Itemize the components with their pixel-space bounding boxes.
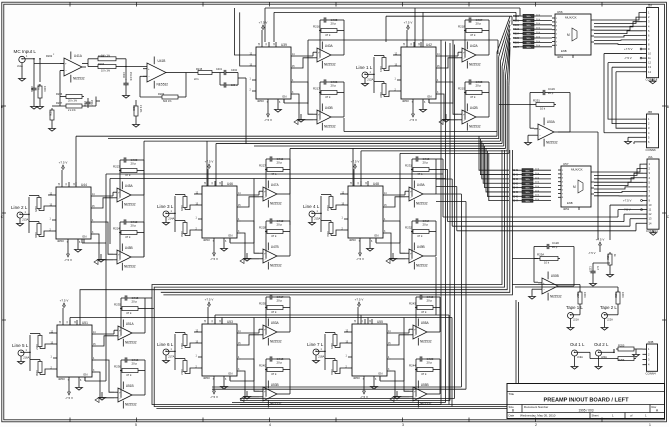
input jack J13A (Line 2 L): [11, 205, 29, 226]
node arrow at U49B: [386, 259, 390, 264]
svg-text:J15A: J15A: [314, 217, 321, 221]
svg-text:2 k 1%: 2 k 1%: [68, 109, 76, 112]
svg-text:Line 6 L: Line 6 L: [157, 342, 174, 347]
op-amp U53A: [259, 319, 282, 346]
svg-text:M: M: [573, 185, 576, 189]
svg-text:U41B: U41B: [157, 59, 165, 63]
svg-text:47 k: 47 k: [421, 310, 427, 314]
ground at U55: [371, 381, 378, 389]
svg-text:-7.5 V: -7.5 V: [64, 258, 72, 262]
node arrow at U51B: [95, 398, 99, 403]
resistor R222: [379, 82, 386, 99]
op-amp U55A: [409, 319, 432, 346]
wire feedback loop U47A: [266, 170, 290, 197]
svg-text:R209: R209: [158, 92, 165, 96]
svg-text:R241: R241: [512, 174, 519, 177]
svg-text:EN: EN: [84, 373, 88, 377]
svg-text:NE5532: NE5532: [416, 263, 428, 267]
power +7.5V at U48: [351, 160, 360, 182]
wire feedback loop U49B: [412, 232, 436, 259]
wire feedback loop U42B: [465, 93, 489, 120]
resistor R241: [180, 333, 187, 350]
svg-text:20 p: 20 p: [423, 223, 429, 227]
svg-text:4053: 4053: [353, 376, 360, 380]
wire EN bus row3: [70, 315, 452, 407]
svg-text:U41A: U41A: [74, 54, 83, 58]
svg-text:U45A: U45A: [125, 184, 134, 188]
power +7.5V at U46: [205, 160, 214, 182]
svg-text:NE5532: NE5532: [324, 62, 336, 66]
ground at U40B: [298, 114, 305, 122]
wire R237/R238 to U51: [30, 333, 53, 375]
svg-text:NE5532: NE5532: [550, 294, 562, 298]
svg-text:EN: EN: [379, 372, 383, 376]
svg-text:R224: R224: [113, 227, 120, 231]
wire conn14-1 pin10: [604, 54, 643, 114]
svg-text:J16A: J16A: [23, 356, 30, 360]
svg-text:J19A: J19A: [577, 355, 583, 359]
svg-text:R244: R244: [409, 364, 416, 368]
svg-text:+7.5 V: +7.5 V: [355, 298, 364, 302]
input jack J12A (Line 1 L): [356, 65, 374, 86]
power +7.5V at U53: [205, 298, 214, 320]
svg-text:R258: R258: [614, 292, 617, 298]
svg-text:20 p: 20 p: [427, 361, 433, 365]
svg-text:U51: U51: [82, 321, 88, 325]
svg-text:20 p: 20 p: [132, 362, 138, 366]
capacitor C412 / resistor R228 feedback: [259, 218, 290, 238]
svg-text:U47A: U47A: [271, 183, 280, 187]
op-amp U49B: [405, 243, 428, 270]
op-amp U47A: [259, 181, 282, 208]
svg-text:20 p: 20 p: [476, 22, 482, 26]
svg-text:U45B: U45B: [125, 246, 133, 250]
svg-text:R239: R239: [259, 302, 266, 306]
resistor R242: [180, 359, 187, 376]
wire R245/R246 to U55: [325, 332, 348, 374]
svg-text:47 k: 47 k: [325, 33, 331, 37]
MC input jack J11A: [14, 49, 47, 109]
wire tape bus right: [512, 132, 618, 292]
svg-text:R243: R243: [512, 182, 519, 185]
svg-text:R222: R222: [379, 92, 382, 98]
op-amp U53B: [259, 381, 282, 408]
input jack J18A (Line 7 L): [307, 342, 325, 363]
svg-text:R236: R236: [114, 365, 121, 369]
svg-text:R219: R219: [458, 87, 465, 91]
svg-text:NE5532: NE5532: [469, 124, 481, 128]
resistor R237: [35, 334, 42, 351]
svg-text:R227: R227: [259, 164, 266, 168]
multiplexer U56 (4051 MUX/CK): [552, 10, 594, 59]
svg-text:+7.5 V: +7.5 V: [351, 160, 360, 164]
svg-text:R325: R325: [513, 37, 520, 40]
wire EN bus row2: [82, 153, 446, 381]
svg-text:20 p: 20 p: [427, 299, 433, 303]
svg-text:C121: C121: [589, 266, 592, 272]
connector J6A CONN14: [643, 155, 659, 235]
ground at U46: [221, 243, 228, 251]
svg-text:R240: R240: [259, 364, 266, 368]
wire mid bus: [76, 78, 509, 315]
svg-text:J20A: J20A: [601, 355, 607, 359]
op-amp U40A: [313, 42, 336, 69]
op-amp U40B: [313, 104, 336, 131]
wire jack J13A junction: [26, 197, 30, 233]
svg-text:10 k 1%: 10 k 1%: [101, 70, 111, 73]
svg-text:4053: 4053: [58, 377, 65, 381]
svg-text:U53A: U53A: [271, 321, 280, 325]
svg-text:J17A: J17A: [168, 355, 175, 359]
resistor R230: [180, 221, 187, 238]
svg-text:20 p: 20 p: [131, 162, 137, 166]
svg-text:20 p: 20 p: [331, 84, 337, 88]
svg-text:R207: R207: [56, 101, 63, 105]
wire fan to resistor array R320-R327: [497, 16, 510, 153]
svg-text:ENB: ENB: [561, 49, 567, 53]
svg-text:U48: U48: [373, 182, 379, 186]
svg-text:NE5532: NE5532: [546, 140, 558, 144]
svg-text:20 k 1%: 20 k 1%: [68, 100, 78, 103]
svg-text:R247: R247: [512, 200, 519, 203]
svg-text:Out 1 L: Out 1 L: [570, 342, 585, 347]
wire top bus row1: [235, 8, 521, 66]
capacitor C419 / resistor R243 feedback: [409, 294, 440, 314]
svg-text:U55: U55: [377, 320, 383, 324]
svg-text:NE5532: NE5532: [124, 202, 136, 206]
4053 analog switch U55: [346, 319, 392, 381]
svg-text:R217: R217: [313, 87, 320, 91]
svg-text:20 p: 20 p: [552, 245, 558, 249]
ground at U48: [367, 243, 374, 251]
wire vertical bundle center: [232, 40, 455, 405]
resistor R238: [35, 360, 42, 377]
svg-text:EN: EN: [229, 234, 233, 238]
svg-text:2: 2: [535, 423, 537, 427]
svg-text:U46: U46: [227, 182, 233, 186]
svg-text:EN: EN: [428, 95, 432, 99]
svg-text:R237: R237: [35, 344, 38, 350]
svg-text:R251: R251: [533, 99, 540, 103]
svg-text:U57: U57: [563, 162, 569, 166]
svg-text:R208: R208: [132, 105, 135, 111]
svg-text:MUX/CK: MUX/CK: [571, 168, 583, 172]
wire feedback loop U40B: [320, 93, 344, 120]
svg-text:4053: 4053: [57, 239, 64, 243]
svg-text:U53B: U53B: [271, 383, 279, 387]
power -7.5V at U55: [360, 381, 368, 399]
svg-text:U44: U44: [81, 183, 87, 187]
wire bottom bus: [156, 300, 518, 409]
svg-text:R243: R243: [409, 302, 416, 306]
node arrow at U40B: [294, 120, 298, 125]
svg-text:4051: 4051: [557, 55, 564, 59]
node arrow at U55B: [390, 397, 394, 402]
resistor array R240-R247: [512, 169, 551, 203]
op-amp U51A: [114, 320, 137, 347]
svg-text:C120: C120: [552, 241, 559, 245]
svg-text:R322: R322: [513, 24, 520, 27]
svg-text:-7.5 V: -7.5 V: [409, 118, 417, 122]
svg-text:NE5532: NE5532: [270, 201, 282, 205]
power +7.5V at U44: [59, 161, 68, 183]
svg-text:R25A: R25A: [537, 253, 544, 257]
svg-text:R205: R205: [49, 110, 52, 116]
svg-text:NE5532: NE5532: [270, 263, 282, 267]
capacitor C410 / resistor R224 feedback: [113, 219, 144, 239]
svg-text:U51B: U51B: [126, 384, 134, 388]
svg-text:U40B: U40B: [325, 106, 333, 110]
input jack J15A (Line 4 L): [303, 204, 321, 225]
svg-text:of: of: [630, 414, 633, 418]
svg-text:R231: R231: [405, 164, 412, 168]
ground at U42B: [443, 114, 450, 122]
4053 analog switch U48: [342, 181, 388, 243]
wire U46 outputs to op-amps: [241, 191, 259, 259]
svg-text:R326: R326: [513, 41, 520, 44]
wire jack J18A junction: [322, 334, 326, 370]
wire EN bus row1: [284, 40, 498, 104]
svg-text:1: 1: [649, 423, 651, 427]
wire feedback loop U47B: [266, 232, 290, 259]
svg-text:U56: U56: [557, 10, 563, 14]
svg-text:Wednesday, May 05, 2010: Wednesday, May 05, 2010: [520, 414, 556, 418]
svg-text:20 p: 20 p: [132, 300, 138, 304]
svg-text:47 k: 47 k: [470, 33, 476, 37]
power +7.5V at conn14-2: [623, 199, 643, 203]
svg-text:NE5532: NE5532: [73, 76, 85, 80]
svg-text:U40A: U40A: [325, 44, 334, 48]
svg-text:Line 5 L: Line 5 L: [12, 343, 29, 348]
svg-text:U49B: U49B: [417, 245, 425, 249]
svg-text:C119: C119: [548, 87, 555, 91]
svg-text:Out 2 L: Out 2 L: [594, 342, 609, 347]
capacitor C413 / resistor R231 feedback: [405, 156, 436, 176]
resistor R233: [326, 195, 333, 212]
power -7.5V at U39: [264, 104, 272, 122]
svg-text:C401: C401: [216, 68, 223, 71]
svg-text:+7.5 V: +7.5 V: [205, 160, 214, 164]
power -7.5V at U46: [210, 243, 218, 261]
svg-text:NE5532: NE5532: [157, 82, 169, 86]
svg-text:R245: R245: [512, 191, 519, 194]
svg-text:R253: R253: [606, 254, 609, 260]
svg-text:R230: R230: [180, 231, 183, 237]
svg-text:20 p: 20 p: [331, 22, 337, 26]
wire U44 outputs to op-amps: [95, 192, 113, 260]
svg-text:4053: 4053: [257, 99, 264, 103]
resistor R245: [330, 333, 337, 350]
svg-text:NE5532: NE5532: [124, 264, 136, 268]
svg-text:Sheet: Sheet: [592, 413, 599, 417]
wire feedback loop U55B: [416, 370, 440, 397]
op-amp U50A integrator: [499, 87, 570, 147]
resistor R229: [180, 195, 187, 212]
svg-text:M: M: [567, 33, 570, 37]
power +7.5V at U39: [259, 21, 268, 43]
power -7.5V at conn14-1: [624, 56, 643, 60]
svg-text:CONN4: CONN4: [646, 371, 657, 375]
svg-text:+7.5 V: +7.5 V: [259, 21, 268, 25]
svg-text:47 k: 47 k: [271, 234, 277, 238]
wire tape bus: [80, 150, 512, 407]
op-amp U45A: [113, 182, 136, 209]
svg-text:J18A: J18A: [318, 355, 325, 359]
ground at U47B: [244, 253, 251, 261]
resistor R206/R207 feedback: [49, 92, 101, 131]
wire feedback loop U51A: [121, 309, 145, 336]
power -7.5V at U42: [409, 104, 417, 122]
svg-text:U51A: U51A: [126, 322, 135, 326]
wire U48 outputs to op-amps: [387, 191, 405, 259]
wire U40B output run: [344, 118, 497, 132]
svg-text:47 k: 47 k: [470, 95, 476, 99]
svg-text:Line 3 L: Line 3 L: [157, 204, 174, 209]
ground at U49B: [390, 253, 397, 261]
svg-text:R240: R240: [512, 169, 519, 172]
svg-text:+7.5 V: +7.5 V: [624, 47, 633, 51]
capacitor C406 / resistor R217 feedback: [313, 79, 344, 99]
svg-text:ENB: ENB: [567, 201, 573, 205]
wire U51 outputs to op-amps: [96, 330, 114, 398]
capacitor C416 / resistor R236 feedback: [114, 357, 145, 377]
svg-text:U39: U39: [281, 43, 287, 47]
op-amp U41B: [132, 57, 186, 128]
svg-text:22 k: 22 k: [194, 78, 199, 81]
svg-text:+7.5 V: +7.5 V: [205, 298, 214, 302]
svg-text:R241: R241: [180, 343, 183, 349]
wire jack J17A junction: [172, 334, 176, 370]
resistor array R320-R327: [513, 14, 552, 49]
svg-text:4: 4: [269, 423, 271, 427]
svg-text:U47B: U47B: [271, 245, 279, 249]
svg-text:20 p: 20 p: [476, 84, 482, 88]
wire R233/R234 to U48: [321, 194, 344, 236]
resistor R226: [34, 222, 41, 239]
svg-text:J14A: J14A: [168, 217, 175, 221]
op-amp U51B: [114, 382, 137, 409]
svg-text:B: B: [1, 105, 3, 109]
ground at U44: [75, 244, 82, 252]
wire mux2-conn14: [594, 164, 643, 196]
svg-text:U55A: U55A: [421, 321, 430, 325]
ground at U39: [275, 104, 282, 112]
capacitor C409 / resistor R223 feedback: [113, 157, 144, 177]
resistor R215 coupling: [186, 67, 246, 88]
svg-text:R202: R202: [46, 54, 53, 58]
svg-text:EN: EN: [229, 372, 233, 376]
svg-text:20 p: 20 p: [277, 361, 283, 365]
svg-text:U50A: U50A: [547, 120, 556, 124]
input jack J17A (Line 6 L): [157, 342, 175, 363]
wire jack J12A junction: [371, 57, 375, 93]
wire R221/R222 to U42: [374, 55, 397, 97]
svg-text:100R: 100R: [43, 86, 46, 92]
connector J5A CONN14: [643, 4, 659, 84]
resistor R234: [326, 221, 333, 238]
capacitor C417 / resistor R239 feedback: [259, 294, 290, 314]
svg-text:R242: R242: [512, 178, 519, 181]
svg-text:EN: EN: [375, 234, 379, 238]
power +7.5V at U55: [355, 298, 364, 320]
resistor R221: [379, 56, 386, 73]
input jack J14A (Line 3 L): [157, 204, 175, 225]
svg-text:20 p: 20 p: [277, 223, 283, 227]
svg-text:NE5532: NE5532: [125, 402, 137, 406]
ground at U53B: [244, 391, 251, 399]
svg-text:J12A: J12A: [367, 78, 374, 82]
capacitor C405 / resistor R216 feedback: [313, 17, 344, 37]
wire U53 outputs to op-amps: [241, 329, 259, 397]
power -7.5V at U51: [65, 382, 73, 400]
svg-text:+7.5 V: +7.5 V: [596, 238, 605, 242]
wire feedback loop U45A: [120, 171, 144, 198]
svg-text:15 k 1%: 15 k 1%: [129, 72, 132, 82]
svg-text:R246: R246: [330, 369, 333, 375]
wire mux1-conn14: [594, 13, 643, 45]
svg-text:U42B: U42B: [470, 106, 478, 110]
svg-text:+7.5 V: +7.5 V: [404, 21, 413, 25]
wire conn14-2 pin10: [610, 205, 643, 240]
svg-text:NE5532: NE5532: [420, 339, 432, 343]
svg-text:U50B: U50B: [551, 274, 559, 278]
wire R241/R242 to U53: [175, 332, 198, 374]
tape output jacks J21A J22A: [566, 290, 624, 330]
op-amp U41A: [34, 52, 86, 93]
svg-text:+7.5 V: +7.5 V: [60, 299, 69, 303]
4053 analog switch U42: [395, 42, 441, 104]
4053 analog switch U53: [196, 319, 242, 381]
node arrow at U45B: [94, 260, 98, 265]
svg-text:U42: U42: [426, 43, 432, 47]
svg-text:R323: R323: [513, 28, 520, 31]
power +7.5V at U42: [404, 21, 413, 43]
svg-text:4053: 4053: [203, 376, 210, 380]
svg-text:CONN6: CONN6: [646, 148, 657, 152]
svg-text:Line 1 L: Line 1 L: [356, 65, 373, 70]
svg-text:Line 7 L: Line 7 L: [307, 342, 324, 347]
svg-text:-7.5 V: -7.5 V: [210, 395, 218, 399]
svg-text:Title: Title: [509, 392, 515, 396]
svg-text:J5A: J5A: [648, 4, 653, 8]
wire jack J14A junction: [172, 196, 176, 232]
capacitor C415 / resistor R235 feedback: [114, 295, 145, 315]
svg-text:R216: R216: [313, 25, 320, 29]
svg-text:U55B: U55B: [421, 383, 429, 387]
svg-text:NE5532: NE5532: [270, 339, 282, 343]
op-amp U47B: [259, 243, 282, 270]
wire U42 outputs to op-amps: [440, 52, 458, 120]
svg-text:4u7: 4u7: [596, 266, 599, 271]
svg-text:R242: R242: [180, 369, 183, 375]
svg-text:J13A: J13A: [22, 218, 29, 222]
svg-text:C203: C203: [122, 72, 125, 78]
svg-text:47 k: 47 k: [271, 372, 277, 376]
svg-text:C201: C201: [30, 86, 33, 92]
svg-text:10 k 1%: 10 k 1%: [101, 55, 111, 58]
svg-text:R221: R221: [379, 66, 382, 72]
svg-text:Date: Date: [509, 413, 515, 417]
svg-text:4053: 4053: [402, 99, 409, 103]
svg-text:NE5532: NE5532: [125, 340, 137, 344]
svg-text:NE5532: NE5532: [324, 124, 336, 128]
capacitor C418 / resistor R240 feedback: [259, 356, 290, 376]
svg-text:Line 2 L: Line 2 L: [11, 205, 28, 210]
svg-text:10 k: 10 k: [544, 261, 550, 265]
svg-text:+7.5 V: +7.5 V: [59, 161, 68, 165]
svg-text:R235: R235: [114, 303, 121, 307]
svg-text:-7.5 V: -7.5 V: [65, 396, 73, 400]
